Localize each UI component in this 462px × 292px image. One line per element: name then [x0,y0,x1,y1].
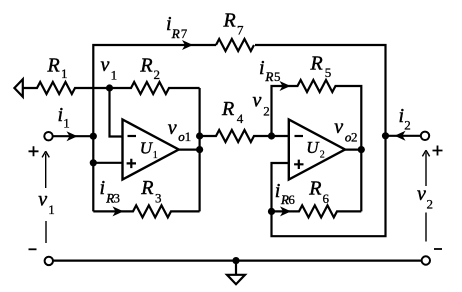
svg-text:i: i [259,57,265,79]
svg-text:3: 3 [114,191,121,206]
svg-text:5: 5 [325,65,332,80]
svg-text:R: R [223,9,236,31]
svg-text:v: v [168,117,177,139]
svg-text:1: 1 [111,68,118,83]
svg-text:2: 2 [404,118,411,133]
svg-text:R: R [308,178,321,200]
svg-text:U: U [306,138,320,157]
svg-text:6: 6 [288,192,295,207]
svg-text:R: R [140,177,153,199]
svg-text:1: 1 [61,66,68,81]
svg-text:i: i [166,13,172,35]
svg-text:5: 5 [274,69,281,84]
svg-text:6: 6 [323,191,330,206]
svg-text:v: v [38,189,47,211]
svg-text:4: 4 [237,111,244,126]
svg-text:7: 7 [237,23,244,38]
svg-text:2: 2 [351,130,358,145]
svg-text:1: 1 [185,129,192,144]
svg-text:R: R [171,26,180,41]
svg-text:v: v [253,90,262,112]
svg-text:2: 2 [154,67,161,82]
svg-text:R: R [264,69,273,84]
svg-text:R: R [221,98,234,120]
svg-text:3: 3 [155,191,162,206]
svg-text:v: v [101,54,110,76]
svg-text:1: 1 [63,116,70,131]
svg-text:v: v [417,183,426,205]
svg-text:2: 2 [263,103,270,118]
svg-text:i: i [58,104,64,126]
svg-text:7: 7 [181,26,188,41]
svg-text:i: i [100,177,106,199]
svg-text:i: i [399,105,405,127]
svg-text:2: 2 [320,150,325,161]
svg-text:1: 1 [153,150,158,161]
svg-text:v: v [334,116,343,138]
svg-text:2: 2 [427,197,434,212]
svg-text:R: R [47,55,60,77]
svg-text:i: i [275,180,281,202]
svg-text:U: U [140,138,154,157]
svg-text:R: R [310,53,323,75]
svg-text:R: R [139,55,152,77]
svg-text:1: 1 [48,202,55,217]
